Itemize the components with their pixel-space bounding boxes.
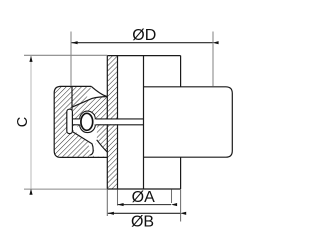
big block (right, unsectioned)	[144, 87, 233, 157]
white void below slot (lower bearing gap)	[73, 127, 97, 156]
hatched silhouette: roller ring + hub wall bar	[54, 56, 117, 189]
white lens between top fillet and cone diagonal	[85, 86, 107, 101]
cavity head (curled lip)	[67, 109, 73, 133]
recess wall vertical (top)	[71, 87, 73, 110]
roller outline	[54, 86, 107, 157]
top edge of hub flange	[107, 55, 180, 57]
flange right vertical (bottom)	[180, 157, 182, 189]
cone diagonal bottom + hook lip	[73, 132, 94, 155]
bottom edge	[107, 188, 180, 190]
bar left edge	[106, 56, 108, 120]
cone diagonal top	[72, 97, 107, 108]
svg-text:ØD: ØD	[132, 27, 156, 44]
axis vertical line	[143, 56, 145, 189]
extension lines (gray)	[24, 32, 213, 190]
slot / channel white band	[72, 119, 143, 124]
lower inner cone edge	[97, 140, 108, 152]
dimension line C	[30, 56, 32, 189]
dimension line OA	[118, 204, 172, 206]
svg-text:C: C	[15, 117, 31, 127]
ball	[81, 113, 93, 130]
dimension line OB	[108, 212, 180, 214]
flange right vertical (top)	[180, 56, 182, 87]
raceway white half-disks	[80, 111, 96, 119]
fillet top	[91, 86, 107, 96]
dimension line OD	[72, 42, 213, 44]
bar right edge	[117, 56, 119, 120]
channel lines (parting line between halves)	[72, 119, 144, 125]
svg-text:ØA: ØA	[132, 189, 155, 206]
svg-text:ØB: ØB	[131, 213, 154, 230]
raceway arcs hugging ball	[80, 111, 96, 133]
